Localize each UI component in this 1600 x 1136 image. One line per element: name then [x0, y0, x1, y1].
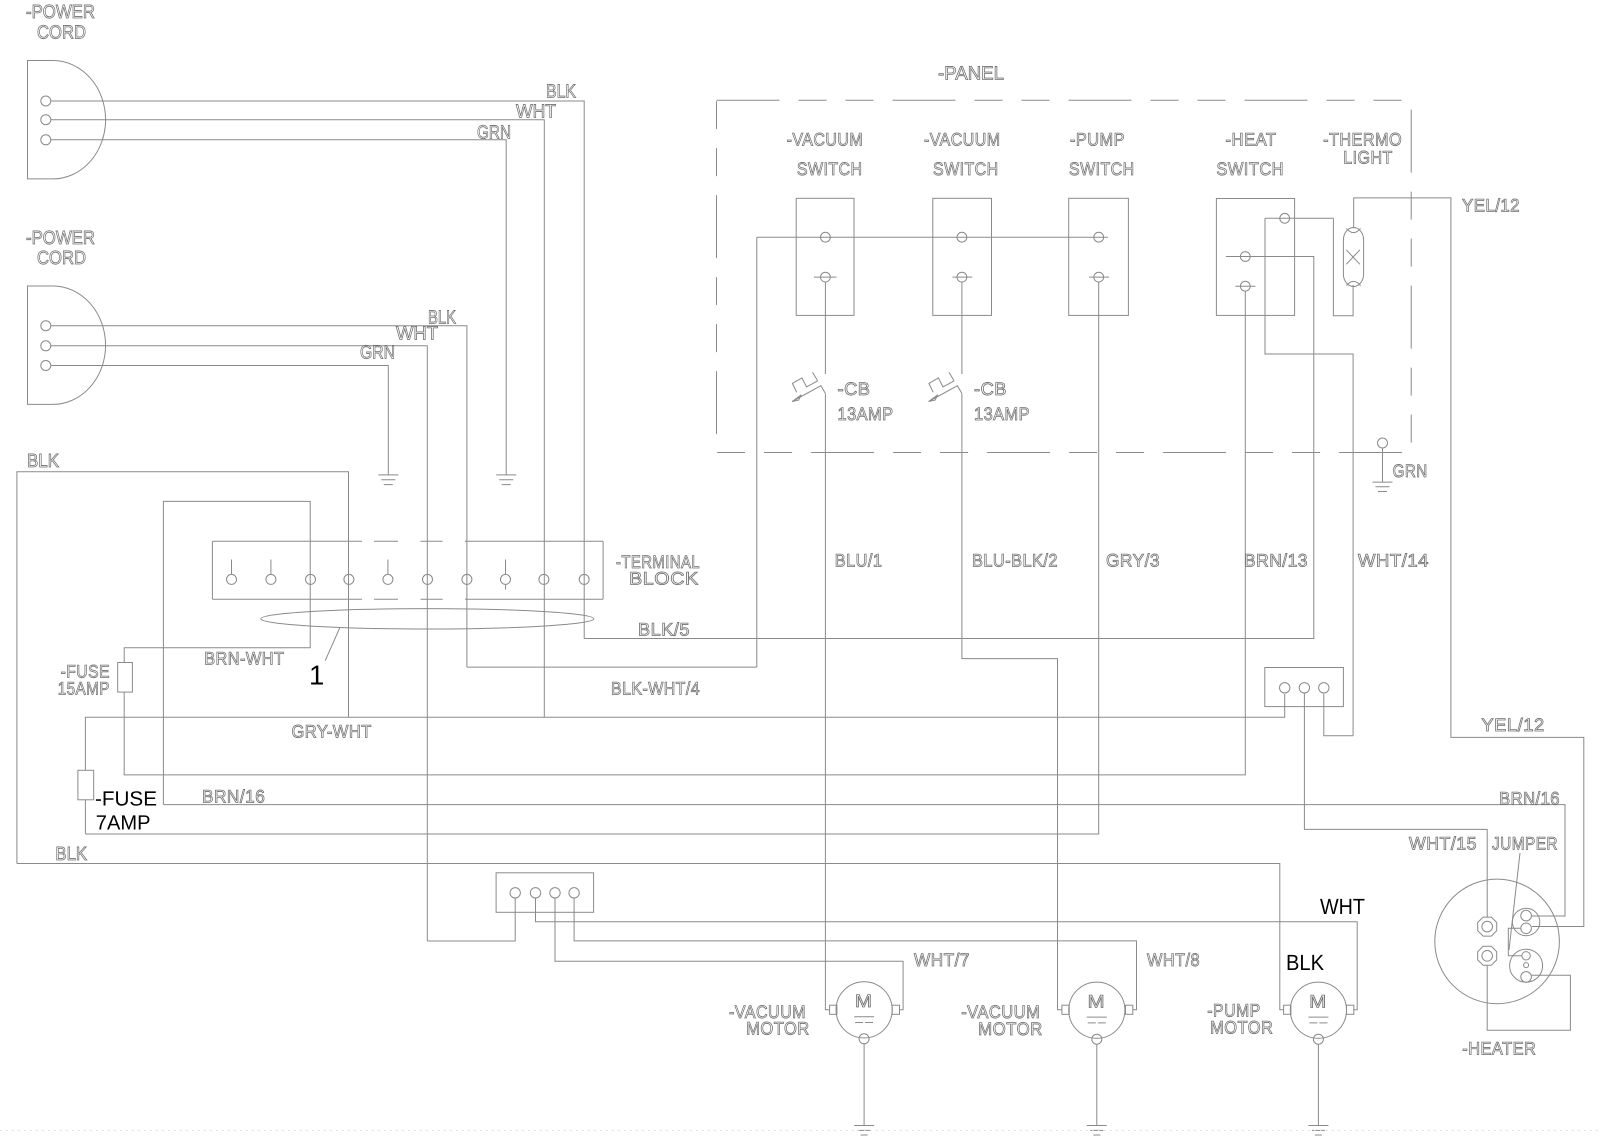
wire BRN-WHT fuse to T3 [124, 501, 310, 804]
svg-text:1: 1 [309, 660, 324, 691]
wire GRN from P2 [51, 366, 389, 475]
svg-text:-POWER: -POWER [26, 2, 95, 23]
svg-text:SWITCH: SWITCH [1216, 159, 1284, 179]
svg-text:BRN-WHT: BRN-WHT [204, 649, 284, 669]
svg-text:WHT/8: WHT/8 [1147, 950, 1200, 970]
svg-text:WHT/15: WHT/15 [1409, 834, 1477, 854]
svg-text:-FUSE: -FUSE [95, 788, 157, 811]
power cord P1 label [26, 2, 95, 44]
svg-text:-THERMO: -THERMO [1323, 130, 1402, 150]
ground for P1 GRN [496, 475, 516, 485]
wire WHT/7 X1 pin3 to motor M1 [555, 898, 903, 1010]
wire X1 pin1 to T6 line [427, 898, 515, 941]
circuit breaker CB2 [929, 372, 962, 401]
svg-text:13AMP: 13AMP [838, 404, 894, 424]
terminal T7 [462, 574, 472, 584]
svg-text:BLOCK: BLOCK [629, 569, 699, 589]
terminal T6 [423, 574, 433, 584]
wire GRY-WHT [85, 694, 1284, 770]
svg-text:WHT/14: WHT/14 [1358, 551, 1429, 571]
wire BLK from P2 [51, 326, 467, 667]
wire GRN from P1 [51, 140, 506, 475]
vacuum motor M1 [830, 982, 900, 1044]
svg-text:-CB: -CB [974, 379, 1007, 399]
ground M1 [854, 1044, 874, 1135]
terminal T8 [501, 574, 511, 584]
svg-text:M: M [1088, 991, 1106, 1011]
svg-text:-VACUUM: -VACUUM [787, 130, 864, 150]
S2 terminals [957, 232, 967, 242]
jumper leader line [1509, 853, 1520, 950]
svg-text:MOTOR: MOTOR [1210, 1018, 1273, 1038]
svg-text:-PUMP: -PUMP [1070, 130, 1125, 150]
terminal T3 [306, 574, 316, 584]
wire WHT from P1 [51, 120, 545, 718]
wire WHT/14 3conn to lamp [1324, 694, 1353, 736]
svg-text:-HEAT: -HEAT [1226, 130, 1277, 150]
svg-text:-HEATER: -HEATER [1462, 1039, 1536, 1059]
wire BRN/16 [163, 805, 1565, 916]
heat switch top circle loop [1265, 218, 1353, 736]
vacuum switch S1 box [796, 198, 854, 315]
svg-text:BLK: BLK [546, 82, 576, 103]
terminal T5 [383, 574, 393, 584]
svg-text:M: M [1309, 991, 1327, 1011]
connector block X1 (4 pin) [496, 873, 593, 913]
svg-text:BRN/16: BRN/16 [1499, 789, 1560, 809]
svg-text:YEL/12: YEL/12 [1481, 715, 1544, 735]
svg-text:BLK: BLK [55, 844, 87, 865]
leader line 1 [325, 628, 340, 661]
terminal T10 [579, 574, 589, 584]
ground GRN inside panel [1378, 438, 1388, 448]
pump motor M3 [1284, 982, 1354, 1044]
svg-text:-PANEL: -PANEL [938, 64, 1004, 85]
ground for P2 GRN [378, 475, 398, 485]
terminal T2 [266, 574, 276, 584]
terminal T9 [539, 574, 549, 584]
wire WHT/15 X2 mid to heater [1304, 693, 1487, 917]
svg-text:CORD: CORD [37, 248, 86, 269]
top bus wire [757, 237, 1108, 667]
svg-text:GRN: GRN [360, 343, 395, 364]
ground M2 [1087, 1044, 1107, 1135]
svg-text:BLK: BLK [27, 451, 59, 472]
svg-text:LIGHT: LIGHT [1343, 148, 1393, 168]
heat switch mid wire to BLK/5 [584, 257, 1314, 639]
panel dashed enclosure [717, 100, 1412, 452]
svg-text:BLU/1: BLU/1 [835, 551, 883, 571]
power cord P2 body [28, 286, 106, 404]
power cord P2 pins [41, 321, 51, 331]
power cord P1 body [28, 61, 106, 179]
svg-text:-POWER: -POWER [26, 228, 95, 249]
S2 lower tick [953, 276, 973, 278]
svg-text:SWITCH: SWITCH [933, 159, 999, 179]
svg-text:GRN: GRN [477, 123, 511, 144]
page edge dotted line [0, 1130, 1600, 1132]
wire WHT X1 pin2 to pump motor [536, 898, 1358, 1010]
svg-text:WHT: WHT [396, 324, 438, 345]
pump lower tick [1089, 276, 1109, 278]
wire GRY/3 pump switch down [85, 282, 1098, 834]
svg-text:WHT: WHT [516, 102, 556, 123]
heat switch terminals [1280, 213, 1290, 223]
heater body [1435, 879, 1560, 1004]
heater terminal group UR [1512, 908, 1539, 935]
wire 7AMP fuse bottom [84, 800, 86, 834]
svg-text:13AMP: 13AMP [974, 404, 1030, 424]
terminal block body [212, 541, 603, 599]
svg-text:BLK-WHT/4: BLK-WHT/4 [611, 679, 700, 699]
svg-text:BLK/5: BLK/5 [638, 620, 690, 640]
svg-text:GRN: GRN [1393, 461, 1428, 481]
svg-text:WHT/7: WHT/7 [914, 950, 970, 970]
svg-text:BLU-BLK/2: BLU-BLK/2 [972, 551, 1058, 571]
svg-text:WHT: WHT [1320, 894, 1365, 919]
terminal T1 [227, 574, 237, 584]
terminal T4 [344, 574, 354, 584]
heater terminal group LR [1510, 949, 1543, 982]
wire WHT/8 X1 pin4 to motor M2 [574, 898, 1136, 1010]
svg-text:JUMPER: JUMPER [1492, 834, 1558, 854]
jumper wire [1508, 928, 1522, 956]
cable wrap ellipse [261, 609, 594, 629]
svg-text:YEL/12: YEL/12 [1462, 196, 1520, 216]
fuse 7AMP body [78, 770, 94, 800]
vacuum motor M2 [1062, 982, 1133, 1044]
S1 terminals [821, 232, 831, 242]
svg-text:SWITCH: SWITCH [1069, 159, 1135, 179]
heat lower tick [1235, 285, 1255, 287]
ground M3 [1308, 1044, 1328, 1135]
S1 lower tick [814, 276, 837, 278]
wire BLU/1 S1 to motor [825, 282, 829, 1010]
svg-text:MOTOR: MOTOR [978, 1019, 1043, 1039]
pump switch terminals [1094, 232, 1104, 242]
wire BLK from P1 [51, 101, 584, 639]
connector block X2 (3 pin) [1265, 668, 1344, 707]
power cord P1 pins [41, 96, 51, 106]
svg-text:15AMP: 15AMP [58, 679, 110, 699]
wire BLK long to pump motor [17, 864, 1284, 1010]
svg-text:MOTOR: MOTOR [746, 1019, 810, 1039]
circuit breaker CB1 [792, 372, 825, 401]
big box BLK loop [17, 472, 349, 864]
lamp top wire to YEL/12 [1354, 198, 1584, 927]
wire WHT from P2 [51, 346, 428, 941]
svg-text:BRN/13: BRN/13 [1244, 551, 1308, 571]
wire BRN/13 heat switch down [124, 291, 1245, 775]
heat switch box [1216, 199, 1294, 316]
power cord P2 label [26, 228, 95, 269]
thermo light lamp [1343, 228, 1363, 287]
fuse 15AMP body [118, 663, 133, 693]
vacuum switch S2 box [933, 198, 992, 315]
wire BLK-WHT/4 [467, 666, 757, 668]
svg-text:BRN/16: BRN/16 [202, 787, 265, 807]
svg-text:GRY/3: GRY/3 [1106, 551, 1160, 571]
svg-text:GRY-WHT: GRY-WHT [292, 722, 372, 742]
svg-text:SWITCH: SWITCH [797, 159, 863, 179]
svg-text:-VACUUM: -VACUUM [924, 130, 1001, 150]
svg-text:CORD: CORD [37, 23, 86, 44]
heater terminal LL [1478, 946, 1497, 965]
heater bottom loop wire [1487, 965, 1570, 1030]
wire BLU-BLK/2 S2 to motor [962, 282, 1062, 1010]
svg-text:-CB: -CB [838, 379, 871, 399]
svg-text:7AMP: 7AMP [96, 811, 151, 834]
heater terminal UL [1478, 917, 1497, 936]
pump switch box [1069, 198, 1129, 315]
svg-text:BLK: BLK [1286, 950, 1324, 975]
svg-text:M: M [855, 991, 873, 1011]
